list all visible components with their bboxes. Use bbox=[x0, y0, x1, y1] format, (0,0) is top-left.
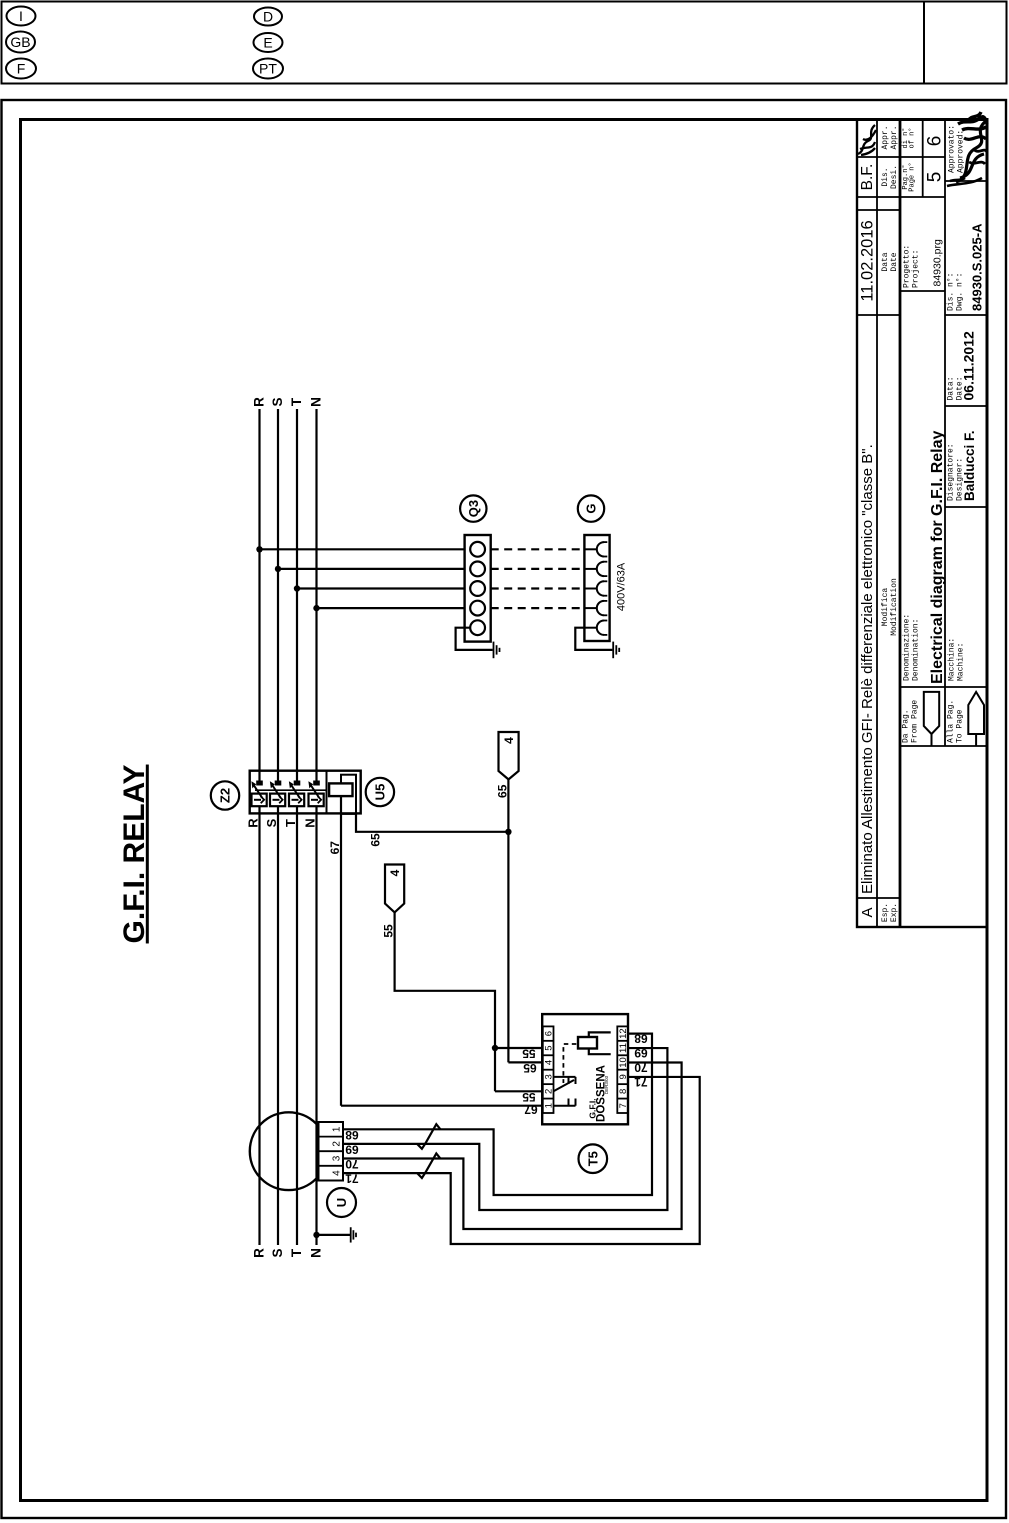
wire 55 down to pin2 bbox=[494, 1048, 496, 1091]
svg-text:Modifica: Modifica bbox=[881, 588, 890, 627]
svg-text:Page n°: Page n° bbox=[907, 162, 916, 191]
svg-text:9: 9 bbox=[618, 1074, 629, 1079]
svg-text:Eliminato Allestimento GFI- Re: Eliminato Allestimento GFI- Relè differe… bbox=[859, 444, 876, 894]
node bus T tap bbox=[294, 585, 300, 591]
svg-text:69: 69 bbox=[634, 1046, 648, 1060]
svg-text:84930.S.025-A: 84930.S.025-A bbox=[970, 223, 985, 311]
svg-text:70: 70 bbox=[634, 1061, 648, 1075]
ground G bbox=[612, 642, 614, 659]
wire R to Q3 bbox=[260, 548, 465, 550]
svg-text:S: S bbox=[264, 818, 279, 827]
switch Z2 pole S box bbox=[270, 794, 285, 807]
cable slash wires 70-71 bbox=[417, 1153, 440, 1178]
wire 65 from U5 bbox=[356, 814, 508, 832]
switch Z2 label bbox=[211, 781, 239, 809]
node bus S tap bbox=[275, 566, 281, 572]
svg-text:Dis.: Dis. bbox=[881, 167, 890, 186]
svg-text:5: 5 bbox=[544, 1045, 555, 1050]
motor U terminal box bbox=[319, 1122, 344, 1181]
svg-text:T: T bbox=[289, 397, 304, 406]
svg-text:To Page: To Page bbox=[955, 709, 964, 743]
switch Z2 pole T terminal bbox=[294, 781, 299, 785]
svg-text:Da Pag.: Da Pag. bbox=[901, 709, 910, 743]
relay T5 body bbox=[542, 1014, 628, 1124]
svg-text:I: I bbox=[19, 8, 23, 24]
revision approval signature bbox=[858, 125, 876, 155]
bus N wire lower bbox=[315, 806, 317, 1245]
motor U label bbox=[327, 1188, 356, 1217]
svg-text:6: 6 bbox=[544, 1031, 555, 1036]
switch Z2 pole N terminal bbox=[314, 781, 319, 785]
language badge I bbox=[7, 7, 36, 26]
svg-text:Project:: Project: bbox=[911, 250, 920, 288]
to-page flag bbox=[968, 692, 984, 746]
svg-text:Desi.: Desi. bbox=[890, 165, 899, 189]
wire N to Q3 bbox=[317, 607, 465, 609]
svg-text:DER3/03: DER3/03 bbox=[604, 1075, 609, 1094]
breaker Q3 pole 4 bbox=[470, 601, 485, 616]
svg-text:5: 5 bbox=[924, 172, 945, 183]
svg-text:12: 12 bbox=[618, 1028, 629, 1039]
switch Z2 linkage bbox=[255, 789, 327, 791]
svg-text:T5: T5 bbox=[586, 1151, 601, 1166]
connector G contact 2 bbox=[584, 568, 597, 570]
svg-text:GB: GB bbox=[10, 34, 30, 50]
svg-text:T: T bbox=[289, 1248, 304, 1257]
breaker Q3 pole 2 bbox=[470, 562, 485, 577]
wire dashed Q3-G pole 4 bbox=[491, 607, 585, 609]
svg-text:T: T bbox=[283, 819, 298, 827]
svg-text:2: 2 bbox=[544, 1089, 555, 1094]
svg-text:69: 69 bbox=[345, 1143, 359, 1157]
motor U circle bbox=[250, 1112, 328, 1190]
wire 65 vertical bbox=[507, 779, 509, 1062]
svg-text:R: R bbox=[251, 397, 266, 407]
bus R wire lower bbox=[258, 806, 260, 1245]
wire 68 route bbox=[343, 1034, 652, 1195]
wire Q3 to ground bbox=[456, 628, 493, 650]
svg-text:70: 70 bbox=[345, 1157, 359, 1171]
switch Z2 pole R box bbox=[252, 794, 267, 807]
bus N wire upper bbox=[315, 409, 317, 783]
svg-text:11: 11 bbox=[618, 1043, 629, 1053]
language selector strip bbox=[2, 2, 1007, 84]
svg-text:3: 3 bbox=[544, 1074, 555, 1079]
svg-text:8: 8 bbox=[618, 1089, 629, 1094]
from-page flag bbox=[924, 692, 939, 746]
field di n / of n bbox=[922, 120, 924, 198]
svg-text:55: 55 bbox=[522, 1090, 536, 1104]
wire S to Q3 bbox=[278, 568, 465, 570]
device U5 label bbox=[366, 778, 394, 806]
switch Z2 pole N lever bbox=[311, 786, 319, 798]
svg-text:06.11.2012: 06.11.2012 bbox=[961, 331, 977, 401]
svg-text:D: D bbox=[263, 9, 273, 25]
svg-text:F: F bbox=[17, 61, 26, 77]
svg-text:55: 55 bbox=[522, 1047, 536, 1061]
svg-text:4: 4 bbox=[502, 737, 516, 744]
off-page arrow 4 (net 55) bbox=[385, 865, 404, 913]
wire 69 route bbox=[343, 1048, 667, 1210]
svg-text:Data:: Data: bbox=[946, 376, 955, 400]
svg-text:65: 65 bbox=[496, 784, 510, 798]
svg-text:N: N bbox=[303, 818, 318, 827]
svg-text:N: N bbox=[308, 1248, 323, 1258]
svg-text:71: 71 bbox=[634, 1075, 648, 1089]
svg-text:68: 68 bbox=[345, 1128, 359, 1142]
off-page arrow 4 (net 65) bbox=[499, 732, 519, 779]
svg-text:Machine:: Machine: bbox=[956, 643, 965, 681]
ground N bbox=[350, 1227, 352, 1242]
language badge GB bbox=[6, 32, 35, 53]
svg-text:S: S bbox=[270, 1248, 285, 1257]
svg-text:Esp.: Esp. bbox=[881, 903, 890, 922]
svg-text:7: 7 bbox=[618, 1103, 629, 1108]
svg-text:65: 65 bbox=[523, 1061, 537, 1075]
svg-text:R: R bbox=[251, 1248, 266, 1258]
bus T wire upper bbox=[296, 409, 298, 783]
language badge F bbox=[6, 59, 36, 79]
svg-text:Modification: Modification bbox=[890, 578, 899, 636]
bus S wire lower bbox=[277, 806, 279, 1245]
relay T5 left pin strip bbox=[543, 1026, 554, 1113]
svg-text:Progetto:: Progetto: bbox=[902, 245, 911, 288]
relay T5 contact bbox=[554, 1077, 576, 1084]
svg-text:Denominazione:: Denominazione: bbox=[902, 614, 911, 681]
node bus R tap bbox=[256, 546, 262, 552]
breaker Q3 label bbox=[460, 495, 486, 521]
bus T wire lower bbox=[296, 806, 298, 1245]
svg-text:S: S bbox=[270, 397, 285, 406]
svg-text:of n°: of n° bbox=[907, 127, 916, 148]
svg-text:55: 55 bbox=[382, 924, 396, 938]
wire 65 to T5 pin4 bbox=[508, 1061, 543, 1063]
switch Z2 pole S lever bbox=[273, 786, 281, 798]
svg-text:1: 1 bbox=[332, 1126, 343, 1132]
approval signature bbox=[956, 121, 986, 182]
svg-text:B.F.: B.F. bbox=[859, 164, 876, 191]
connector G contact 5 bbox=[584, 627, 597, 629]
svg-text:A: A bbox=[859, 907, 876, 917]
svg-text:Dwg. n°:: Dwg. n°: bbox=[955, 273, 964, 311]
breaker Q3 pole 3 bbox=[470, 581, 485, 596]
relay T5 actuation dashed link bbox=[563, 1044, 576, 1083]
svg-text:2: 2 bbox=[332, 1141, 343, 1147]
svg-text:84930.prg: 84930.prg bbox=[932, 239, 944, 286]
breaker Q3 pole 5 bbox=[470, 620, 485, 635]
relay T5 coil bbox=[578, 1037, 597, 1049]
svg-text:Denomination:: Denomination: bbox=[911, 619, 920, 681]
svg-text:Data: Data bbox=[881, 252, 890, 271]
svg-text:G.F.I. RELAY: G.F.I. RELAY bbox=[118, 765, 151, 944]
svg-text:Q3: Q3 bbox=[466, 500, 481, 517]
svg-text:11.02.2016: 11.02.2016 bbox=[858, 220, 876, 301]
svg-text:68: 68 bbox=[634, 1032, 648, 1046]
switch Z2 pole N box bbox=[309, 794, 324, 807]
breaker Q3 pole 1 bbox=[470, 542, 485, 557]
svg-text:PT: PT bbox=[259, 61, 277, 77]
svg-text:4: 4 bbox=[388, 869, 402, 876]
connector G label bbox=[578, 495, 604, 521]
svg-text:Balducci F.: Balducci F. bbox=[962, 430, 977, 501]
svg-text:4: 4 bbox=[544, 1060, 555, 1065]
svg-text:From Page: From Page bbox=[910, 700, 919, 743]
svg-text:N: N bbox=[308, 397, 323, 407]
svg-text:Alla Pag.: Alla Pag. bbox=[946, 700, 955, 743]
svg-text:Disegnatore:: Disegnatore: bbox=[946, 443, 955, 501]
connector G contact 3 bbox=[584, 588, 597, 590]
title block outline bbox=[857, 120, 987, 928]
wire T to Q3 bbox=[297, 587, 465, 589]
svg-text:Appr.: Appr. bbox=[890, 125, 899, 149]
cable slash wires 68-69 bbox=[417, 1124, 440, 1149]
svg-text:Dis. n°:: Dis. n°: bbox=[946, 273, 955, 311]
svg-text:R: R bbox=[246, 818, 261, 828]
wire G to ground bbox=[575, 628, 612, 650]
relay T5 label bbox=[579, 1144, 608, 1173]
svg-text:3: 3 bbox=[332, 1155, 343, 1161]
svg-text:Z2: Z2 bbox=[218, 788, 233, 803]
svg-text:G: G bbox=[584, 504, 599, 514]
switch Z2 pole R lever bbox=[254, 786, 262, 798]
connector G contact 4 bbox=[584, 607, 597, 609]
svg-text:Electrical diagram for G.F.I.: Electrical diagram for G.F.I. Relay bbox=[929, 430, 946, 684]
wire 55 to T5 pin5 bbox=[495, 1047, 543, 1049]
svg-text:4: 4 bbox=[332, 1170, 343, 1176]
breaker Q3 body bbox=[465, 535, 491, 642]
language badge D bbox=[254, 8, 282, 26]
svg-text:67: 67 bbox=[328, 841, 342, 855]
language badge E bbox=[254, 33, 283, 52]
svg-text:Appr.: Appr. bbox=[881, 125, 890, 149]
switch Z2 pole T box bbox=[289, 794, 304, 807]
switch Z2 body bbox=[250, 771, 361, 814]
svg-text:6: 6 bbox=[924, 136, 945, 147]
wire dashed Q3-G pole 2 bbox=[491, 568, 585, 570]
wire 67 vertical bbox=[340, 796, 342, 1106]
switch Z2 pole T lever bbox=[292, 786, 300, 798]
ground Q3 bbox=[493, 642, 495, 659]
wire N to ground bbox=[317, 1234, 351, 1236]
wire 55 to T5 pin2 bbox=[495, 1090, 543, 1092]
svg-text:Approved:: Approved: bbox=[956, 130, 965, 173]
switch Z2 pole S terminal bbox=[275, 781, 280, 785]
node 65 junction bbox=[505, 829, 511, 835]
node bus N tap bbox=[313, 605, 319, 611]
wire dashed Q3-G pole 3 bbox=[491, 587, 585, 589]
svg-text:Approvato:: Approvato: bbox=[947, 125, 956, 173]
svg-text:Exp.: Exp. bbox=[890, 903, 899, 922]
svg-text:U5: U5 bbox=[373, 784, 388, 801]
device U5 body bbox=[329, 783, 352, 796]
language badge PT bbox=[253, 59, 283, 79]
wire dashed Q3-G pole 1 bbox=[491, 548, 585, 550]
bus S wire upper bbox=[277, 409, 279, 783]
device U5 sensor frame bbox=[341, 775, 356, 814]
svg-text:Macchina:: Macchina: bbox=[947, 638, 956, 681]
wire 71 route bbox=[343, 1077, 700, 1244]
svg-text:10: 10 bbox=[618, 1057, 629, 1068]
wire 67 horizontal to T5 pin1 bbox=[341, 1105, 543, 1107]
node N ground tap bbox=[313, 1232, 319, 1238]
svg-text:U: U bbox=[334, 1198, 349, 1207]
connector G contact 1 bbox=[584, 548, 597, 550]
bus R wire upper bbox=[258, 409, 260, 783]
wire 70 route bbox=[343, 1062, 682, 1229]
node 55 junction bbox=[492, 1045, 498, 1051]
relay T5 right pin strip bbox=[617, 1026, 628, 1113]
wire 55 route bbox=[395, 912, 495, 1048]
svg-text:E: E bbox=[263, 35, 272, 51]
svg-text:Date: Date bbox=[890, 252, 899, 271]
svg-text:71: 71 bbox=[345, 1172, 359, 1186]
connector G body bbox=[584, 535, 609, 641]
switch Z2 pole R terminal bbox=[257, 781, 262, 785]
svg-text:65: 65 bbox=[369, 833, 383, 847]
svg-text:1: 1 bbox=[544, 1103, 555, 1108]
svg-text:400V/63A: 400V/63A bbox=[616, 562, 628, 611]
